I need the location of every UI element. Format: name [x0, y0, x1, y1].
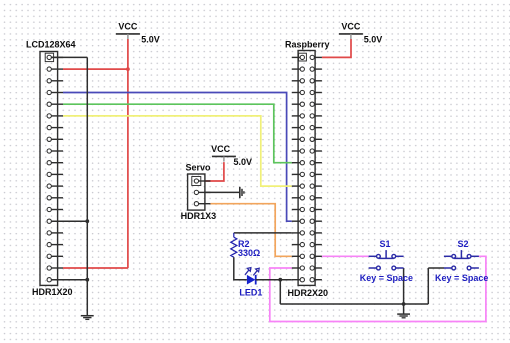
svg-text:S1: S1: [379, 239, 390, 249]
svg-text:Servo: Servo: [186, 163, 212, 173]
svg-text:LED1: LED1: [239, 287, 262, 297]
svg-text:5.0V: 5.0V: [364, 35, 383, 45]
svg-text:Raspberry: Raspberry: [285, 40, 330, 50]
svg-text:5.0V: 5.0V: [141, 35, 160, 45]
svg-text:S2: S2: [457, 239, 468, 249]
svg-text:HDR2X20: HDR2X20: [288, 288, 329, 298]
svg-text:Key = Space: Key = Space: [360, 273, 413, 283]
svg-text:VCC: VCC: [341, 21, 361, 31]
svg-text:330Ω: 330Ω: [238, 248, 260, 258]
svg-text:HDR1X3: HDR1X3: [181, 211, 217, 221]
svg-text:HDR1X20: HDR1X20: [32, 287, 73, 297]
svg-text:LCD128X64: LCD128X64: [26, 39, 76, 49]
svg-text:5.0V: 5.0V: [234, 157, 253, 167]
svg-text:VCC: VCC: [211, 144, 231, 154]
svg-text:Key = Space: Key = Space: [435, 273, 488, 283]
svg-text:VCC: VCC: [118, 21, 138, 31]
